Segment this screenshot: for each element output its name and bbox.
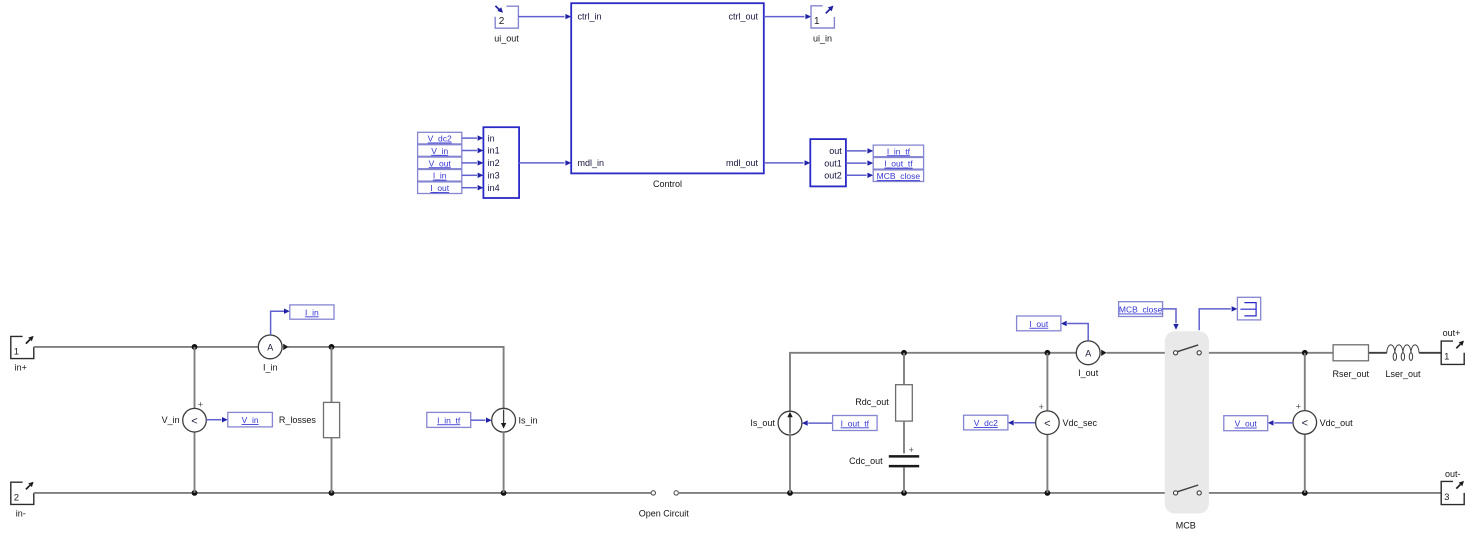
wire Vdc_out to V_out tag xyxy=(1274,422,1293,424)
goto tag MCB_close xyxy=(873,170,923,182)
from tag I_in_tf xyxy=(427,412,471,427)
voltmeter Vdc_out xyxy=(1293,411,1317,435)
inport 2 arrow glyph xyxy=(495,6,499,10)
svg-text:out: out xyxy=(829,146,842,156)
svg-text:I_in_tf: I_in_tf xyxy=(437,415,461,425)
wire out1 to I_out_tf xyxy=(846,162,867,164)
svg-text:A: A xyxy=(267,342,273,352)
wire Rser_out to Lser_out xyxy=(1369,352,1387,354)
svg-text:I_in_tf: I_in_tf xyxy=(887,146,911,156)
node: junction bottom rail / Vdc_sec xyxy=(1045,490,1051,496)
svg-text:I_out: I_out xyxy=(430,183,450,193)
svg-text:in-: in- xyxy=(16,508,26,518)
node: junction bottom rail / V_in xyxy=(192,490,198,496)
wire: bottom-right rail (open circuit to MCB) xyxy=(678,492,1173,494)
from tag V_dc2 xyxy=(418,132,462,144)
svg-text:Lser_out: Lser_out xyxy=(1385,369,1421,379)
wire out to I_in_tf xyxy=(846,150,867,152)
wire I_out_tf to Is_out xyxy=(808,422,832,424)
svg-text:2: 2 xyxy=(14,492,19,503)
wire V_out to mux in2 xyxy=(462,162,477,164)
from tag I_out_tf xyxy=(833,416,878,431)
from tag I_in xyxy=(418,170,462,182)
wire: top-right rail MCB to Rser_out xyxy=(1201,352,1333,354)
svg-text:Vdc_sec: Vdc_sec xyxy=(1063,418,1098,428)
wire V_in to goto tag xyxy=(206,419,221,421)
svg-text:I_out: I_out xyxy=(1078,368,1099,378)
wire mux to mdl_in xyxy=(519,162,564,164)
wire I_out to mux in4 xyxy=(462,187,477,189)
wire MCB to scope xyxy=(1199,309,1231,330)
demux (bus selector) xyxy=(810,139,846,186)
from tag I_out xyxy=(418,182,462,194)
svg-text:Control: Control xyxy=(653,179,682,189)
node: junction bottom rail / Vdc_out xyxy=(1302,490,1308,496)
node: junction bottom rail / Is_out xyxy=(787,490,793,496)
goto tag I_out xyxy=(1017,316,1061,331)
svg-text:2: 2 xyxy=(499,16,505,27)
wire ammeter I_out to goto tag xyxy=(1067,324,1088,341)
svg-text:mdl_in: mdl_in xyxy=(578,158,605,168)
svg-text:in1: in1 xyxy=(488,146,500,156)
wire Cdc_out bottom xyxy=(903,467,905,493)
wire Is_in bottom xyxy=(503,432,505,493)
wire: top-left rail ammeter to Is_in corner, down to Is_in xyxy=(288,347,504,408)
svg-text:ctrl_out: ctrl_out xyxy=(728,12,758,22)
goto tag I_in_tf xyxy=(873,145,923,157)
node: junction top rail / Vdc_out xyxy=(1302,350,1308,356)
wire Vdc_out bottom xyxy=(1304,434,1306,493)
port 2 arrow glyph xyxy=(26,485,30,489)
mux (bus creator) xyxy=(483,127,519,198)
svg-text:MCB: MCB xyxy=(1176,521,1196,531)
svg-text:+: + xyxy=(909,445,914,455)
wire Vdc_sec to V_dc2 xyxy=(1014,422,1035,424)
from tag V_out xyxy=(418,157,462,169)
inport 2 (ui_out) icon xyxy=(495,6,518,28)
svg-text:<: < xyxy=(1302,418,1308,430)
inductor Lser_out xyxy=(1387,345,1419,353)
wire V_dc2 to mux in xyxy=(462,137,477,139)
svg-text:Open Circuit: Open Circuit xyxy=(639,509,690,519)
svg-text:MCB_close: MCB_close xyxy=(877,171,921,181)
wire: bottom-right rail (MCB to port 3) xyxy=(1201,492,1441,494)
open circuit connector right xyxy=(674,491,678,495)
svg-text:I_in: I_in xyxy=(433,171,447,181)
voltmeter V_in xyxy=(183,408,207,432)
ammeter I_out xyxy=(1076,341,1100,365)
wire Lser_out to port out+ xyxy=(1419,352,1441,354)
svg-text:1: 1 xyxy=(14,347,19,358)
svg-text:mdl_out: mdl_out xyxy=(726,158,759,168)
svg-text:V_out: V_out xyxy=(1235,419,1258,429)
svg-text:Vdc_out: Vdc_out xyxy=(1320,418,1354,428)
svg-text:I_out_tf: I_out_tf xyxy=(884,159,913,169)
goto tag V_dc2 xyxy=(964,415,1008,430)
wire I_in to mux in3 xyxy=(462,174,477,176)
scope block xyxy=(1237,297,1260,320)
node: junction top rail / Vdc_sec xyxy=(1045,350,1051,356)
svg-text:Rser_out: Rser_out xyxy=(1333,369,1370,379)
svg-text:+: + xyxy=(1039,402,1044,412)
wire Is_out bottom xyxy=(789,435,791,493)
port out- arrow glyph xyxy=(1456,485,1460,489)
svg-text:ui_out: ui_out xyxy=(494,34,519,44)
wire: top-right rail ammeter to MCB xyxy=(1107,352,1174,354)
svg-text:out+: out+ xyxy=(1443,328,1461,338)
svg-text:ui_in: ui_in xyxy=(813,34,832,44)
wire V_in branch bottom xyxy=(194,432,196,493)
wire Vdc_sec bottom xyxy=(1046,434,1048,493)
subsystem Control xyxy=(571,3,764,173)
svg-text:+: + xyxy=(1296,402,1301,412)
svg-text:I_in: I_in xyxy=(305,307,319,317)
port 1 arrow glyph xyxy=(26,340,30,344)
svg-text:I_out_tf: I_out_tf xyxy=(841,418,870,428)
MCB bottom switch xyxy=(1174,491,1178,495)
wire R_losses bottom xyxy=(331,438,333,493)
svg-text:Is_in: Is_in xyxy=(519,415,538,425)
port 1 (in+) icon xyxy=(11,336,34,358)
wire Rdc_out top xyxy=(903,353,905,385)
svg-text:V_dc2: V_dc2 xyxy=(974,418,998,428)
outport 1 arrow glyph xyxy=(826,9,830,13)
goto tag I_in xyxy=(290,305,334,319)
BOTTOM SECTION xyxy=(11,297,1464,530)
wire Rdc_out to Cdc_out xyxy=(903,421,905,453)
svg-text:in3: in3 xyxy=(488,171,500,181)
svg-text:1: 1 xyxy=(814,16,820,27)
svg-text:in2: in2 xyxy=(488,158,500,168)
port 2 (in-) icon xyxy=(11,482,34,504)
svg-text:V_dc2: V_dc2 xyxy=(428,134,452,144)
svg-text:+: + xyxy=(198,399,203,409)
resistor R_losses xyxy=(324,402,340,437)
goto tag V_in xyxy=(228,412,273,427)
svg-text:R_losses: R_losses xyxy=(279,415,317,425)
ammeter I_in xyxy=(258,335,282,359)
svg-text:out1: out1 xyxy=(824,158,842,168)
svg-text:MCB_close: MCB_close xyxy=(1119,305,1163,315)
node: junction bottom rail / Cdc_out xyxy=(901,490,907,496)
wire out2 to MCB_close xyxy=(846,174,867,176)
svg-text:in+: in+ xyxy=(15,363,27,373)
voltmeter Vdc_sec xyxy=(1036,411,1060,435)
MCB breaker background xyxy=(1165,331,1209,513)
node: junction bottom rail / Is_in xyxy=(501,490,507,496)
current source Is_in xyxy=(492,408,516,432)
node: junction bottom rail / R_losses xyxy=(329,490,335,496)
wire R_losses top xyxy=(331,347,333,403)
capacitor Cdc_out xyxy=(889,455,919,458)
svg-text:in: in xyxy=(488,133,495,143)
node: junction top rail / R_losses xyxy=(329,344,335,350)
svg-text:<: < xyxy=(1044,418,1050,430)
wire ctrl_out to ui_in xyxy=(764,16,805,18)
open circuit connector left xyxy=(651,491,655,495)
goto tag I_out_tf xyxy=(873,158,923,170)
node: junction top rail / Rdc_out xyxy=(901,350,907,356)
port 1 (out+) icon xyxy=(1441,341,1464,364)
wire V_in branch top xyxy=(194,347,196,409)
TOP SECTION xyxy=(418,3,924,198)
svg-text:out-: out- xyxy=(1445,469,1461,479)
svg-text:V_in: V_in xyxy=(162,415,180,425)
svg-text:A: A xyxy=(1085,348,1091,358)
wire: top-left rail port1 to ammeter xyxy=(34,346,258,348)
svg-text:V_in: V_in xyxy=(242,415,259,425)
wire ui_out to ctrl_in xyxy=(518,16,564,18)
node: junction top rail / V_in xyxy=(192,344,198,350)
from tag MCB_close xyxy=(1119,302,1163,317)
svg-text:in4: in4 xyxy=(488,183,500,193)
svg-text:V_in: V_in xyxy=(431,146,448,156)
current source Is_out xyxy=(778,411,802,435)
wire: bottom-left rail xyxy=(34,492,651,494)
resistor Rdc_out xyxy=(896,385,913,421)
svg-text:3: 3 xyxy=(1444,492,1449,503)
wire: top-right rail corner down to Is_out xyxy=(790,353,1076,412)
wire I_in_tf to Is_in xyxy=(471,419,486,421)
wire ammeter to goto I_in xyxy=(271,311,284,335)
wire Vdc_sec top xyxy=(1046,353,1048,411)
goto tag V_out xyxy=(1224,416,1268,431)
port 3 (out-) icon xyxy=(1441,481,1464,504)
svg-text:V_out: V_out xyxy=(429,158,452,168)
wire MCB_close to MCB xyxy=(1163,309,1176,323)
svg-text:1: 1 xyxy=(1444,352,1449,363)
wire Vdc_out top xyxy=(1304,353,1306,411)
svg-text:Is_out: Is_out xyxy=(750,418,775,428)
svg-text:ctrl_in: ctrl_in xyxy=(578,12,602,22)
MCB top switch xyxy=(1174,351,1178,355)
from tag V_in xyxy=(418,145,462,157)
svg-text:<: < xyxy=(191,415,197,427)
port out+ arrow glyph xyxy=(1456,344,1460,348)
svg-text:I_in: I_in xyxy=(263,363,278,373)
svg-text:Cdc_out: Cdc_out xyxy=(849,456,883,466)
wire V_in to mux in1 xyxy=(462,150,477,152)
svg-text:Rdc_out: Rdc_out xyxy=(855,397,889,407)
svg-text:I_out: I_out xyxy=(1029,319,1049,329)
svg-text:out2: out2 xyxy=(824,171,842,181)
resistor Rser_out xyxy=(1333,345,1368,361)
outport 1 (ui_in) icon xyxy=(811,6,834,28)
wire mdl_out to demux xyxy=(764,162,804,164)
